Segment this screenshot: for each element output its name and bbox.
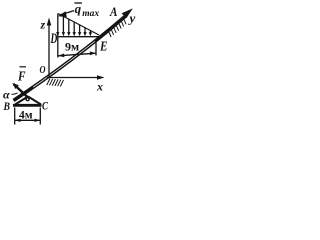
load arrow 2 (62, 16, 65, 36)
beam BA (inclined rod along y axis, double line) (14, 17, 126, 101)
svg-text:D: D (50, 31, 58, 47)
support triangle BC (13, 97, 42, 106)
load max ordinate / first arrow (56, 14, 59, 58)
load arrow 4 (73, 22, 76, 36)
dimension 4m extension lines (15, 108, 41, 125)
svg-text:z: z (40, 18, 46, 32)
load arrow 7 (89, 30, 92, 36)
label F with overbar (17, 67, 26, 85)
svg-text:E: E (99, 40, 107, 55)
svg-text:B: B (3, 99, 10, 113)
svg-text:9м: 9м (65, 40, 79, 54)
distributed load envelope (58, 14, 99, 36)
q_max leader arrow (58, 11, 74, 17)
svg-text:y: y (128, 11, 136, 26)
load arrow 5 (78, 25, 81, 37)
svg-text:4м: 4м (19, 110, 33, 122)
y axis arrowhead (123, 10, 132, 18)
svg-text:A: A (109, 4, 118, 19)
dimension line 9m (D to E) (58, 51, 96, 57)
z axis (47, 18, 52, 78)
angle arc at B (12, 93, 18, 95)
hatching at support A (109, 18, 127, 37)
label q_max with overbar (74, 1, 99, 19)
dimension line 4m (15, 119, 40, 122)
load arrow 3 (67, 19, 70, 36)
extension line at E (95, 40, 97, 56)
svg-text:C: C (42, 99, 49, 113)
hatching at support O (47, 79, 64, 87)
load arrow 6 (83, 28, 86, 37)
load baseline DE (58, 36, 101, 38)
svg-text:q: q (75, 1, 82, 16)
svg-text:max: max (82, 9, 99, 19)
force F arrow (12, 83, 28, 98)
svg-text:O: O (40, 64, 46, 76)
svg-text:F: F (17, 70, 26, 85)
x axis (47, 75, 105, 79)
svg-text:x: x (96, 80, 103, 94)
